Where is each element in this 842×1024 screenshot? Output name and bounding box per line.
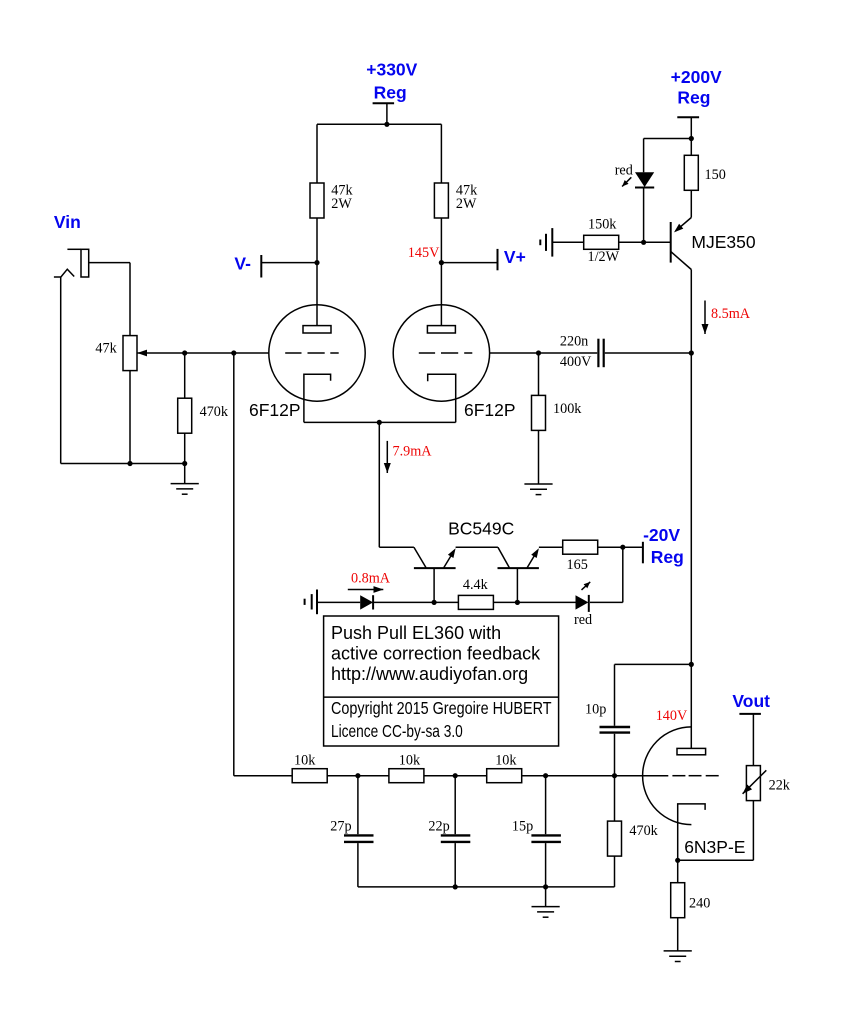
node LED/base junction [641,240,646,245]
tube V1 6F12P envelope [269,305,365,401]
svg-text:10k: 10k [495,752,517,768]
arrow 0.8mA [348,589,384,591]
potentiometer P2 22k [743,766,767,861]
power terminal +330V [373,103,395,124]
capacitor C1 220n [598,339,603,368]
resistor R10 10k [389,769,424,783]
svg-text:+200V: +200V [671,67,722,87]
svg-text:10k: 10k [294,752,316,768]
tube V1 plate [303,326,331,333]
wire feedback vertical [233,353,235,776]
svg-text:Reg: Reg [374,83,407,103]
resistor R12 470k [608,776,622,887]
resistor R7 165 [563,540,598,554]
capacitor C5 10p [600,664,692,775]
svg-text:6N3P-E: 6N3P-E [684,837,745,857]
node feedback tap junction [231,350,236,355]
svg-text:7.9mA: 7.9mA [393,444,433,460]
svg-text:150k: 150k [588,217,617,233]
svg-text:V+: V+ [504,247,526,267]
svg-text:MJE350: MJE350 [691,232,755,252]
node Q2 base junction [432,600,437,605]
chassis terminal (150k bias) [540,228,583,257]
wire R2 to tube V2 plate [440,218,442,326]
capacitor C4 15p [531,776,561,887]
node pot wiper junction [182,350,187,355]
wire R1 to tube V1 plate [316,218,318,326]
svg-text:150: 150 [705,167,726,183]
power terminal +200V [677,117,699,138]
resistor R2 47k 2W [434,183,448,218]
svg-text:Vin: Vin [54,212,81,232]
wire left branch down [316,124,318,183]
wire grid V1 [137,352,269,354]
svg-text:Copyright 2015 Gregoire HUBERT: Copyright 2015 Gregoire HUBERT [331,698,552,718]
svg-text:220n: 220n [560,334,588,350]
capacitor C3 22p [441,776,471,887]
terminal Vout [739,714,761,766]
svg-text:http://www.audiyofan.org: http://www.audiyofan.org [331,664,528,684]
arrow 8.5mA [704,301,706,335]
wire D3 to 4.4k [373,601,458,603]
node 10p/470k junction [612,773,617,778]
svg-text:red: red [615,162,633,178]
transistor Q2 BC549C [414,547,456,602]
svg-text:15p: 15p [512,819,533,835]
ground G2 [524,484,552,495]
ground G1 [171,464,199,495]
node 22p junction [453,773,458,778]
node 470k bottom junction [182,461,187,466]
wire cathode common [304,421,456,423]
wire cathode node to Q2 collector [379,546,414,548]
wire grid V2 to 220n [490,352,598,354]
tube V3 grid dashes [672,775,718,777]
svg-text:400V: 400V [560,354,592,370]
chassis terminal (0.8mA bias) [305,590,317,615]
node +200V junction [689,136,694,141]
LED D2 emission arrow [582,582,591,590]
svg-text:8.5mA: 8.5mA [711,306,751,322]
svg-text:-20V: -20V [643,525,680,545]
wire top rail [317,123,441,125]
node cathode/240 junction [675,858,680,863]
wire bottom RC [358,886,615,888]
tube V3 plate [677,664,706,754]
svg-text:240: 240 [689,895,710,911]
wire cathode down to Q2 [378,422,380,547]
wire feedback to 10k [234,775,292,777]
svg-text:6F12P: 6F12P [249,400,301,420]
svg-text:+330V: +330V [366,59,417,79]
diode D3 [360,595,373,609]
wire D2 to -20V node [590,547,623,602]
wire 10k-10k 2 [424,775,487,777]
node Q3 base junction [515,600,520,605]
resistor R13 240 [671,860,685,951]
wire Vin ground leg [60,277,62,464]
terminal V- [261,255,317,278]
svg-text:Reg: Reg [651,547,684,567]
svg-text:Licence CC-by-sa 3.0: Licence CC-by-sa 3.0 [331,721,463,741]
svg-text:Reg: Reg [677,88,710,108]
wire 4.4k to D2 [493,601,575,603]
svg-text:active correction feedback: active correction feedback [331,644,541,664]
resistor R11 10k [487,769,522,783]
svg-text:10p: 10p [585,702,606,718]
tube V2 6F12P envelope [393,305,489,401]
wire +200V to LED D1 [644,139,692,173]
svg-text:Vout: Vout [732,691,770,711]
junction rail/+330V [384,122,389,127]
wire right branch down [440,124,442,183]
wire 10k-10k [327,775,389,777]
node -20V junction [620,545,625,550]
jack J1 Vin [54,249,130,277]
svg-text:6F12P: 6F12P [464,400,516,420]
annotation box [324,616,559,746]
potentiometer P1 47k [123,263,137,464]
resistor R5 150 [684,139,698,218]
node 22p bottom junction [453,884,458,889]
resistor R4 100k [532,353,546,484]
svg-text:red: red [574,612,592,628]
wire 22k to cathode [678,859,754,861]
svg-text:4.4k: 4.4k [463,577,489,593]
node collector/220n junction [689,350,694,355]
wire 165 to -20V [598,546,643,548]
svg-text:2W: 2W [456,196,477,212]
ground G3 [532,887,560,917]
wire 10k to grid V3 [522,775,669,777]
resistor R8 4.4k [458,595,493,609]
resistor R3 470k [178,353,192,464]
node 10p/plate junction [689,662,694,667]
tube V2 cathode [428,374,456,422]
tube V2 grid (dashed) [419,352,473,354]
wire Q1 collector down [690,270,692,665]
svg-text:22k: 22k [769,778,791,794]
node 27p junction [355,773,360,778]
tube V3 cathode [678,804,705,860]
resistor R9 10k [292,769,327,783]
node V- junction [314,260,319,265]
ground G4 [664,951,692,962]
svg-text:145V: 145V [408,245,440,261]
svg-text:22p: 22p [428,819,449,835]
node 100k junction [536,350,541,355]
svg-text:2W: 2W [331,196,352,212]
wire 220n to collector node [605,352,692,354]
node ground junction [543,884,548,889]
svg-text:27p: 27p [330,819,351,835]
node 15p junction [543,773,548,778]
svg-text:47k: 47k [95,340,117,356]
svg-text:0.8mA: 0.8mA [351,570,391,586]
svg-text:1/2W: 1/2W [588,249,620,265]
svg-text:10k: 10k [399,752,421,768]
svg-text:Push Pull EL360 with: Push Pull EL360 with [331,623,501,643]
terminal -20V [642,542,644,564]
tube V1 grid (dashed) [285,352,339,354]
node pot bottom junction [127,461,132,466]
node cathode junction [377,420,382,425]
svg-text:470k: 470k [629,823,658,839]
resistor R1 47k 2W [310,183,324,218]
resistor R6 150k [584,235,619,249]
LED D1 emission arrow [622,177,631,186]
svg-text:140V: 140V [656,708,688,724]
wire Q3 emitter to 165 [539,546,563,548]
transistor Q1 MJE350 [618,218,691,270]
tube V1 cathode [304,374,331,422]
tube V2 plate [427,326,455,333]
capacitor C2 27p [344,776,374,887]
node V+ junction [439,260,444,265]
wire chassis to D3 [317,601,360,603]
svg-text:BC549C: BC549C [448,518,514,538]
terminal V+ [441,249,497,270]
LED D2 (red) [576,595,589,612]
svg-text:V-: V- [234,254,251,274]
LED D1 (red) [635,172,654,242]
tube V3 6N3P-E envelope (half) [643,727,692,825]
wire Q2 emitter to Q3 collector [456,546,498,548]
svg-text:470k: 470k [200,404,229,420]
svg-text:100k: 100k [553,401,582,417]
transistor Q3 BC549C [498,547,539,602]
wire bottom Vin [61,463,185,465]
svg-text:165: 165 [567,557,588,573]
arrow 7.9mA [386,441,388,473]
